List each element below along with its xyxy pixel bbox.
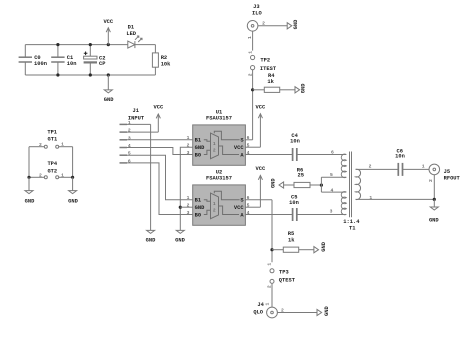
- svg-text:1: 1: [187, 195, 190, 201]
- svg-text:2: 2: [213, 147, 216, 153]
- svg-text:2: 2: [281, 308, 284, 314]
- svg-text:TP3: TP3: [279, 269, 289, 275]
- svg-text:10n: 10n: [289, 200, 299, 206]
- svg-text:4: 4: [330, 187, 333, 193]
- svg-text:GND: GND: [68, 198, 78, 204]
- svg-text:5: 5: [247, 143, 250, 149]
- svg-text:R2: R2: [161, 55, 167, 61]
- svg-text:ITEST: ITEST: [260, 66, 277, 72]
- svg-text:1k: 1k: [288, 238, 295, 244]
- svg-text:TP1: TP1: [47, 130, 57, 136]
- svg-text:B0: B0: [195, 212, 201, 218]
- svg-text:2: 2: [128, 128, 131, 134]
- svg-text:10k: 10k: [161, 62, 171, 68]
- svg-text:GND: GND: [195, 145, 205, 151]
- svg-text:CP: CP: [99, 61, 105, 67]
- svg-text:VCC: VCC: [234, 205, 244, 211]
- svg-text:1: 1: [422, 164, 425, 170]
- svg-text:C1: C1: [67, 55, 73, 61]
- svg-text:GND: GND: [104, 97, 114, 103]
- svg-text:3: 3: [330, 209, 333, 215]
- svg-text:TP4: TP4: [47, 161, 57, 167]
- svg-text:GND: GND: [25, 198, 35, 204]
- svg-text:FSAU3157: FSAU3157: [206, 116, 232, 122]
- svg-text:1: 1: [247, 36, 253, 39]
- svg-text:VCC: VCC: [256, 105, 266, 111]
- svg-text:B1: B1: [195, 138, 201, 144]
- svg-text:1:1.4: 1:1.4: [343, 219, 360, 225]
- svg-text:1: 1: [187, 135, 190, 141]
- svg-text:J1: J1: [132, 108, 138, 114]
- svg-text:3: 3: [187, 150, 190, 156]
- svg-text:10n: 10n: [67, 61, 77, 67]
- svg-text:3: 3: [128, 135, 131, 141]
- svg-text:R5: R5: [288, 231, 294, 237]
- svg-text:4: 4: [128, 143, 131, 149]
- svg-text:100n: 100n: [34, 61, 47, 67]
- svg-text:5: 5: [247, 203, 250, 209]
- svg-text:FSAU3157: FSAU3157: [206, 176, 232, 182]
- svg-text:GT2: GT2: [47, 168, 57, 174]
- svg-text:2: 2: [428, 179, 434, 182]
- svg-text:GND: GND: [195, 205, 205, 211]
- svg-text:J4: J4: [257, 302, 264, 308]
- svg-text:1: 1: [213, 201, 216, 207]
- svg-text:5: 5: [128, 151, 131, 157]
- svg-text:ILO: ILO: [252, 11, 262, 17]
- svg-text:GND: GND: [429, 218, 439, 224]
- svg-text:3: 3: [187, 210, 190, 216]
- svg-text:25: 25: [298, 173, 304, 179]
- svg-text:B1: B1: [195, 198, 201, 204]
- svg-text:1: 1: [213, 141, 216, 147]
- svg-text:VCC: VCC: [154, 105, 164, 111]
- svg-text:1k: 1k: [267, 79, 274, 85]
- svg-text:QLO: QLO: [253, 310, 263, 316]
- svg-text:C0: C0: [34, 55, 40, 61]
- svg-text:1: 1: [247, 51, 253, 54]
- svg-text:GND: GND: [271, 178, 277, 188]
- svg-text:GND: GND: [146, 237, 156, 243]
- svg-text:GND: GND: [293, 19, 299, 29]
- svg-text:1: 1: [264, 303, 270, 306]
- svg-text:2: 2: [262, 21, 265, 27]
- svg-text:1: 1: [128, 120, 131, 126]
- svg-text:2: 2: [213, 207, 216, 213]
- svg-text:RFOUT: RFOUT: [444, 175, 461, 181]
- svg-text:1: 1: [267, 263, 273, 266]
- svg-text:T1: T1: [349, 225, 355, 231]
- svg-text:QTEST: QTEST: [279, 277, 296, 283]
- svg-text:GND: GND: [300, 83, 306, 93]
- svg-text:GND: GND: [175, 237, 185, 243]
- svg-text:J3: J3: [253, 4, 259, 10]
- svg-text:D1: D1: [128, 25, 134, 31]
- svg-text:VCC: VCC: [234, 145, 244, 151]
- svg-text:GND: GND: [321, 241, 327, 251]
- svg-text:VCC: VCC: [103, 19, 113, 25]
- svg-text:2: 2: [187, 203, 190, 209]
- svg-text:6: 6: [331, 150, 334, 156]
- svg-text:TP2: TP2: [260, 58, 270, 64]
- svg-text:B0: B0: [195, 152, 201, 158]
- svg-text:VCC: VCC: [256, 166, 266, 172]
- svg-text:6: 6: [128, 158, 131, 164]
- svg-text:LED: LED: [126, 31, 136, 37]
- svg-text:2: 2: [187, 143, 190, 149]
- svg-text:J5: J5: [444, 169, 450, 175]
- svg-text:10n: 10n: [290, 139, 300, 145]
- svg-text:1: 1: [369, 195, 372, 201]
- svg-text:10n: 10n: [395, 154, 405, 160]
- svg-text:GND: GND: [324, 305, 330, 315]
- svg-text:5: 5: [330, 172, 333, 178]
- svg-text:GT1: GT1: [48, 136, 58, 142]
- svg-text:2: 2: [369, 164, 372, 170]
